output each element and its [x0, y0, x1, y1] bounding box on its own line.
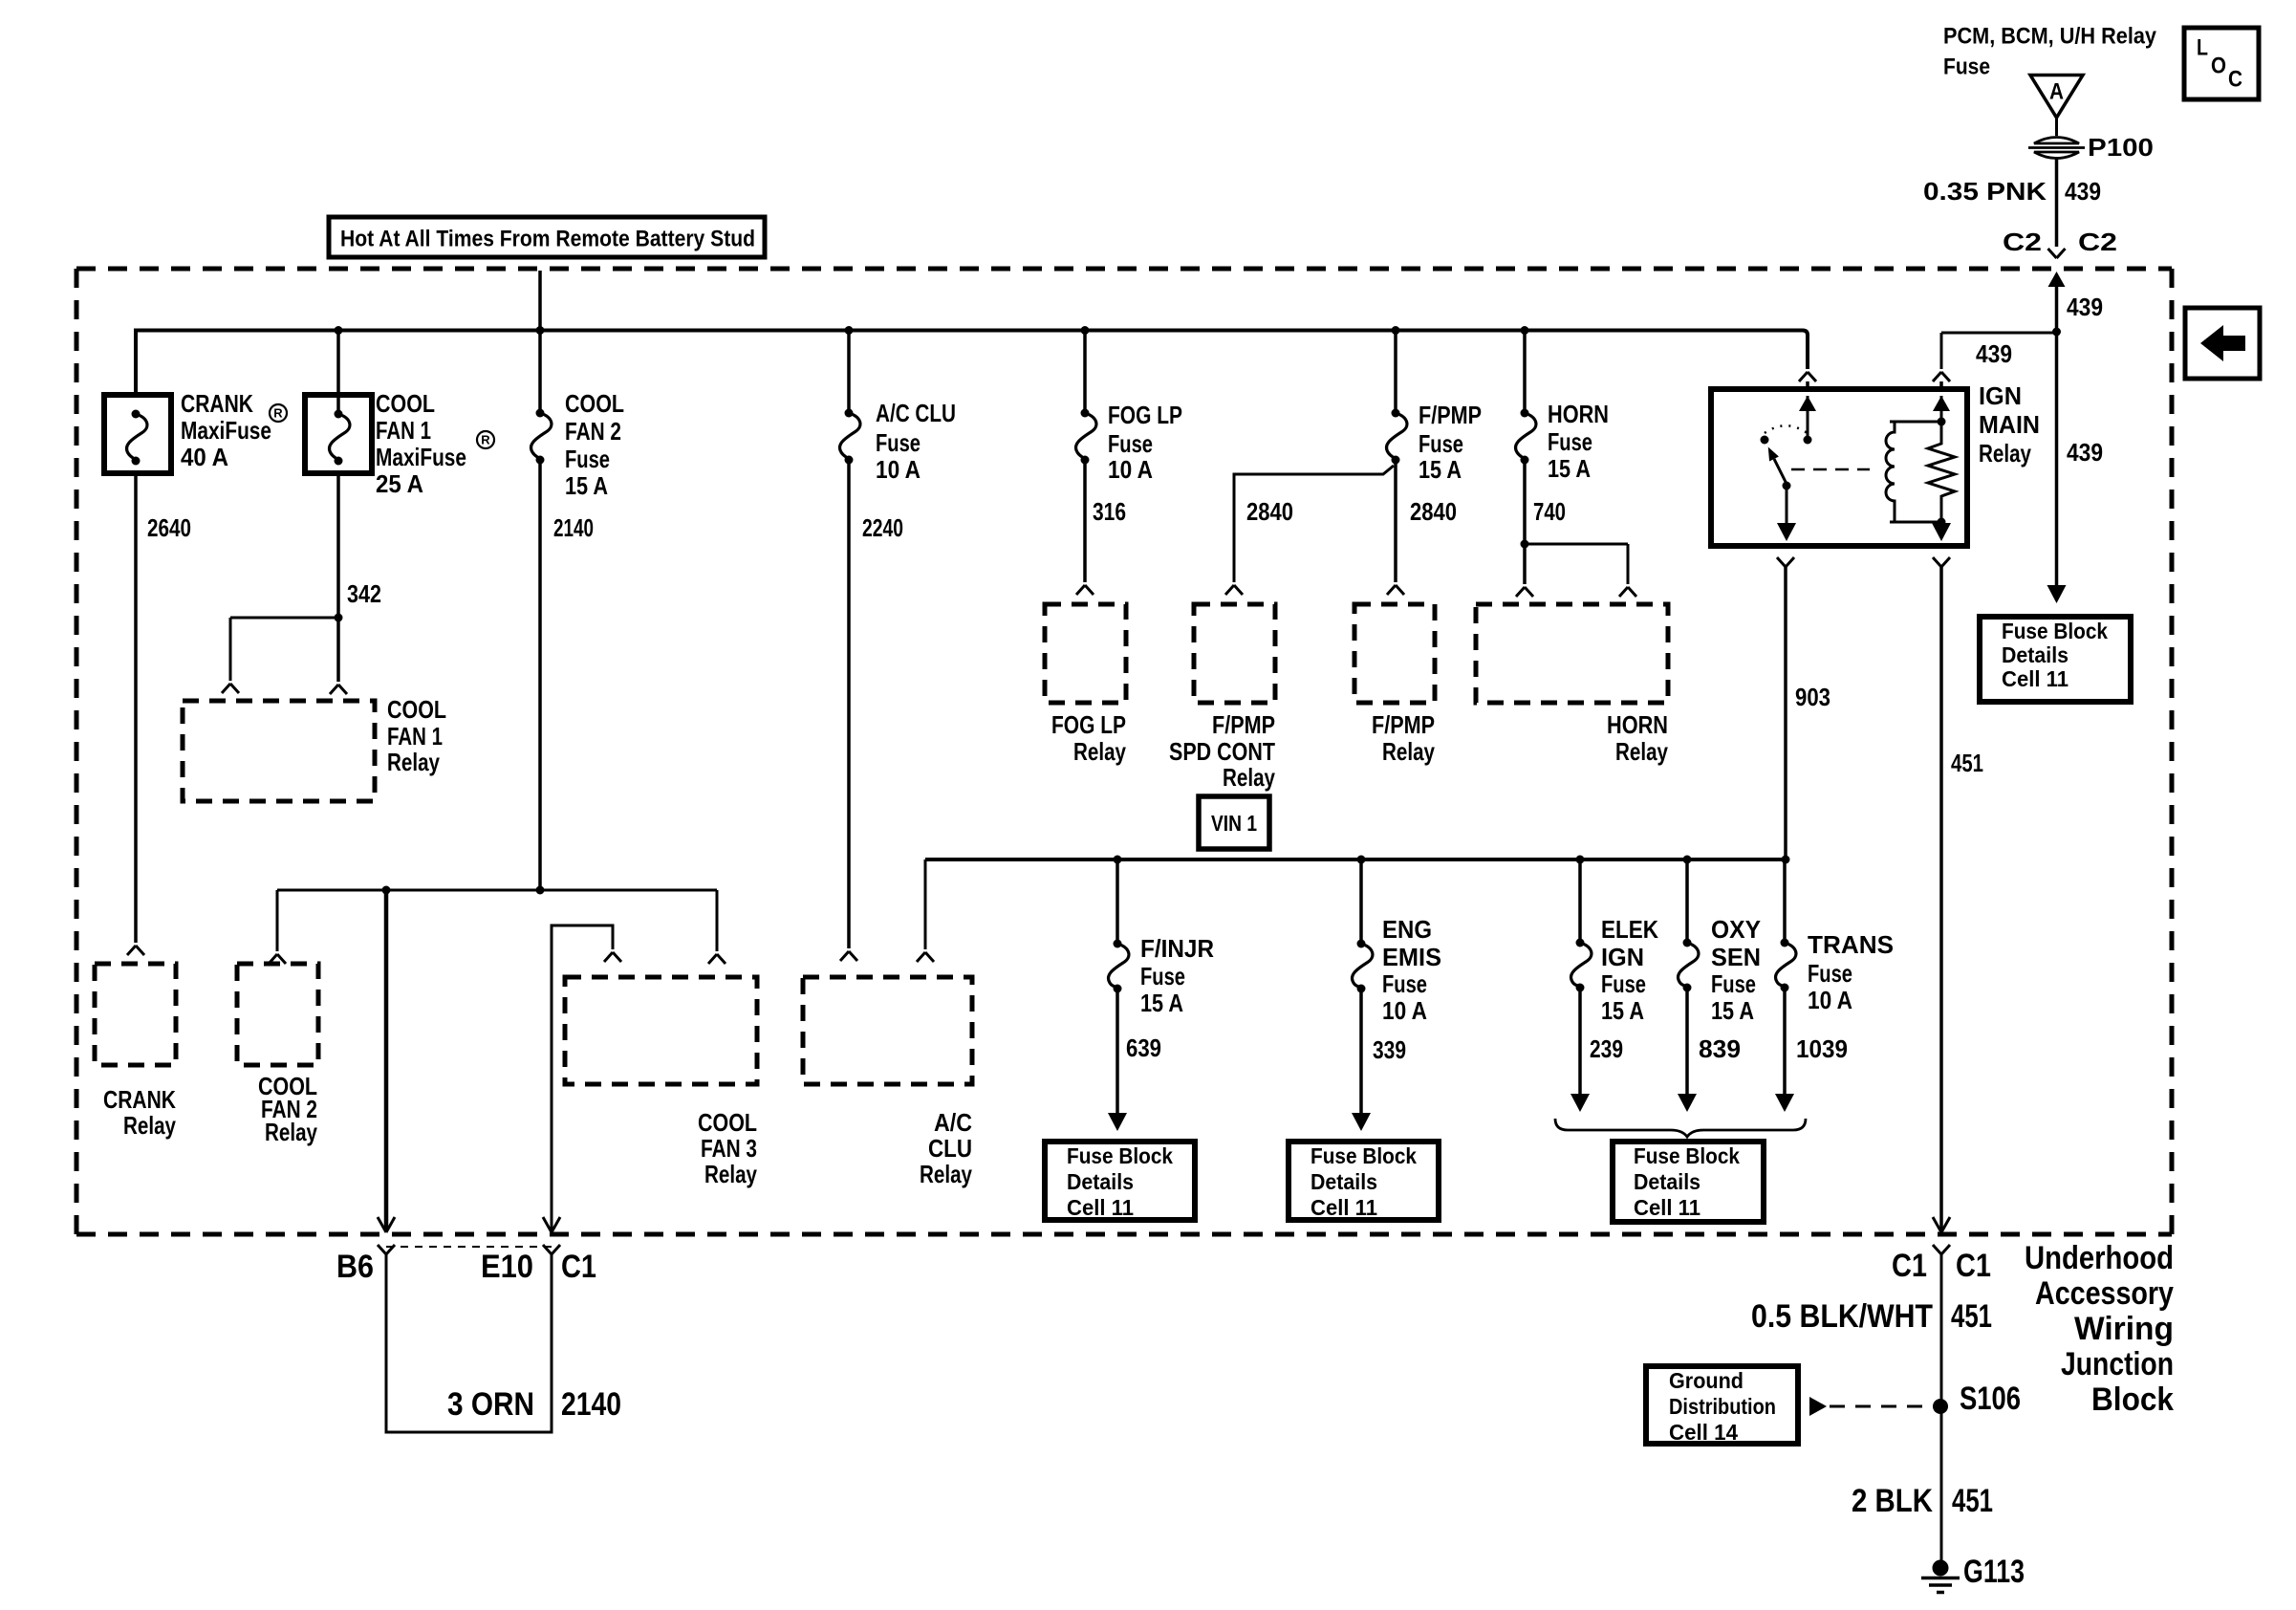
svg-text:SPD CONT: SPD CONT — [1169, 737, 1275, 766]
svg-text:G113: G113 — [1963, 1554, 2025, 1590]
svg-text:339: 339 — [1373, 1035, 1406, 1064]
svg-text:239: 239 — [1590, 1034, 1623, 1063]
svg-text:Cell 11: Cell 11 — [1634, 1195, 1700, 1220]
svg-text:342: 342 — [347, 579, 381, 608]
svg-text:Relay: Relay — [387, 748, 440, 776]
svg-text:Fuse: Fuse — [1711, 969, 1756, 998]
svg-text:MaxiFuse: MaxiFuse — [181, 416, 271, 445]
svg-text:EMIS: EMIS — [1382, 943, 1441, 971]
svg-text:2240: 2240 — [862, 513, 903, 542]
svg-text:F/PMP: F/PMP — [1212, 710, 1275, 739]
svg-text:C2: C2 — [2003, 228, 2042, 256]
svg-text:C2: C2 — [2078, 228, 2117, 256]
svg-text:10 A: 10 A — [1382, 996, 1427, 1025]
svg-text:C1: C1 — [1892, 1248, 1927, 1284]
svg-text:40 A: 40 A — [181, 443, 228, 471]
svg-text:Fuse Block: Fuse Block — [1634, 1143, 1740, 1168]
svg-text:PCM, BCM, U/H Relay: PCM, BCM, U/H Relay — [1943, 24, 2157, 50]
svg-text:Details: Details — [1067, 1169, 1134, 1194]
svg-text:HORN: HORN — [1548, 400, 1609, 428]
svg-text:COOL: COOL — [565, 389, 624, 418]
svg-text:15 A: 15 A — [565, 471, 608, 500]
svg-text:P100: P100 — [2088, 133, 2154, 162]
svg-text:Relay: Relay — [1073, 737, 1126, 766]
svg-text:Cell 11: Cell 11 — [1310, 1195, 1377, 1220]
svg-text:903: 903 — [1795, 683, 1830, 711]
svg-text:15 A: 15 A — [1140, 989, 1183, 1017]
svg-text:FAN 1: FAN 1 — [376, 416, 431, 445]
svg-text:15 A: 15 A — [1711, 996, 1754, 1025]
svg-text:3 ORN: 3 ORN — [447, 1386, 534, 1423]
svg-text:Cell 14: Cell 14 — [1669, 1420, 1738, 1445]
svg-text:Details: Details — [2002, 642, 2069, 667]
svg-text:0.5 BLK/WHT: 0.5 BLK/WHT — [1751, 1298, 1933, 1335]
svg-text:839: 839 — [1699, 1034, 1741, 1063]
svg-text:ENG: ENG — [1382, 915, 1432, 944]
svg-text:Details: Details — [1310, 1169, 1377, 1194]
svg-text:Fuse: Fuse — [1548, 427, 1592, 456]
svg-text:Fuse: Fuse — [876, 428, 921, 457]
svg-text:FAN 2: FAN 2 — [565, 417, 621, 446]
svg-text:Block: Block — [2091, 1382, 2174, 1418]
svg-text:COOL: COOL — [376, 389, 435, 418]
svg-text:2 BLK: 2 BLK — [1852, 1483, 1933, 1519]
svg-text:F/PMP: F/PMP — [1372, 710, 1435, 739]
svg-text:Fuse Block: Fuse Block — [2002, 619, 2108, 643]
svg-text:Fuse: Fuse — [1140, 962, 1185, 990]
svg-text:0.35 PNK: 0.35 PNK — [1923, 177, 2047, 206]
svg-text:Relay: Relay — [1223, 763, 1275, 792]
svg-text:A/C CLU: A/C CLU — [876, 399, 956, 427]
svg-text:25 A: 25 A — [376, 469, 423, 498]
svg-text:439: 439 — [1976, 339, 2012, 368]
svg-text:316: 316 — [1093, 497, 1126, 526]
svg-text:S106: S106 — [1960, 1381, 2021, 1417]
svg-text:C1: C1 — [561, 1249, 596, 1285]
svg-text:Relay: Relay — [1382, 737, 1435, 766]
svg-text:CRANK: CRANK — [103, 1085, 176, 1114]
svg-text:C1: C1 — [1956, 1248, 1991, 1284]
svg-text:Relay: Relay — [123, 1111, 176, 1140]
svg-text:15 A: 15 A — [1419, 455, 1462, 484]
svg-text:O: O — [2211, 54, 2226, 79]
svg-text:Cell 11: Cell 11 — [1067, 1195, 1134, 1220]
svg-text:451: 451 — [1952, 1483, 1993, 1519]
svg-text:10 A: 10 A — [1108, 455, 1153, 484]
svg-text:FAN 1: FAN 1 — [387, 722, 443, 751]
svg-text:IGN: IGN — [1979, 381, 2022, 410]
svg-text:C: C — [2228, 67, 2242, 93]
svg-text:1039: 1039 — [1796, 1034, 1848, 1063]
svg-text:R: R — [273, 406, 283, 421]
svg-text:FOG LP: FOG LP — [1051, 710, 1126, 739]
svg-text:IGN: IGN — [1601, 943, 1644, 971]
svg-text:MAIN: MAIN — [1979, 410, 2040, 439]
svg-text:10 A: 10 A — [876, 455, 921, 484]
svg-text:Fuse: Fuse — [1382, 969, 1427, 998]
svg-text:Relay: Relay — [920, 1160, 972, 1188]
svg-text:Cell 11: Cell 11 — [2002, 666, 2069, 691]
svg-text:2640: 2640 — [147, 513, 191, 542]
svg-text:2840: 2840 — [1410, 497, 1457, 526]
svg-text:439: 439 — [2065, 177, 2101, 206]
svg-text:Hot At All Times From Remote B: Hot At All Times From Remote Battery Stu… — [340, 227, 755, 252]
svg-text:Fuse: Fuse — [565, 445, 610, 473]
svg-text:COOL: COOL — [698, 1108, 757, 1137]
svg-text:15 A: 15 A — [1548, 454, 1591, 483]
svg-text:B6: B6 — [336, 1249, 374, 1285]
svg-text:Relay: Relay — [1979, 439, 2031, 468]
svg-text:Ground: Ground — [1669, 1368, 1744, 1393]
svg-text:TRANS: TRANS — [1808, 930, 1894, 959]
svg-text:Fuse: Fuse — [1601, 969, 1646, 998]
svg-text:COOL: COOL — [387, 695, 446, 724]
svg-text:ELEK: ELEK — [1601, 915, 1658, 944]
svg-text:10 A: 10 A — [1808, 986, 1852, 1014]
svg-text:439: 439 — [2067, 293, 2103, 321]
svg-text:FAN 3: FAN 3 — [701, 1134, 757, 1163]
svg-text:F/PMP: F/PMP — [1419, 401, 1482, 429]
svg-text:R: R — [481, 433, 490, 447]
svg-text:MaxiFuse: MaxiFuse — [376, 443, 466, 471]
svg-text:451: 451 — [1951, 749, 1983, 777]
svg-text:639: 639 — [1126, 1033, 1161, 1062]
svg-text:FOG LP: FOG LP — [1108, 401, 1182, 429]
svg-text:VIN 1: VIN 1 — [1211, 811, 1257, 836]
svg-text:Fuse: Fuse — [1419, 429, 1463, 458]
svg-text:451: 451 — [1951, 1298, 1992, 1335]
svg-text:Relay: Relay — [704, 1160, 757, 1188]
svg-text:2840: 2840 — [1246, 497, 1293, 526]
svg-text:CLU: CLU — [928, 1134, 972, 1163]
svg-text:439: 439 — [2067, 438, 2103, 467]
svg-text:740: 740 — [1533, 497, 1566, 526]
svg-text:15 A: 15 A — [1601, 996, 1644, 1025]
svg-text:Fuse Block: Fuse Block — [1067, 1143, 1173, 1168]
svg-text:OXY: OXY — [1711, 915, 1761, 944]
svg-text:Relay: Relay — [1615, 737, 1668, 766]
svg-text:Distribution: Distribution — [1669, 1394, 1776, 1419]
svg-text:CRANK: CRANK — [181, 389, 253, 418]
svg-text:2140: 2140 — [553, 513, 594, 542]
svg-text:Junction: Junction — [2061, 1346, 2174, 1382]
svg-text:F/INJR: F/INJR — [1140, 934, 1214, 963]
svg-text:Details: Details — [1634, 1169, 1700, 1194]
svg-text:Accessory: Accessory — [2035, 1275, 2174, 1312]
svg-text:Fuse Block: Fuse Block — [1310, 1143, 1417, 1168]
svg-text:HORN: HORN — [1607, 710, 1668, 739]
svg-text:L: L — [2197, 35, 2208, 61]
svg-text:Wiring: Wiring — [2074, 1311, 2174, 1347]
svg-text:Fuse: Fuse — [1108, 429, 1153, 458]
svg-text:Relay: Relay — [265, 1118, 317, 1146]
svg-text:Fuse: Fuse — [1943, 54, 1990, 80]
svg-text:Fuse: Fuse — [1808, 959, 1852, 988]
svg-text:2140: 2140 — [561, 1386, 621, 1423]
svg-text:A: A — [2049, 79, 2064, 105]
svg-text:A/C: A/C — [934, 1108, 972, 1137]
svg-text:Underhood: Underhood — [2025, 1240, 2174, 1276]
svg-text:SEN: SEN — [1711, 943, 1761, 971]
svg-text:E10: E10 — [481, 1249, 533, 1285]
